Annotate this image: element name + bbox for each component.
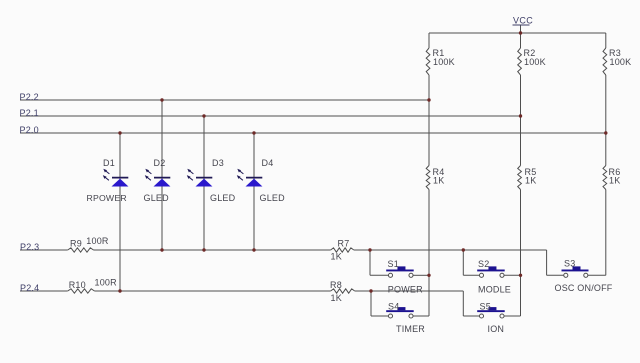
svg-text:P2.2: P2.2 (20, 92, 39, 102)
svg-text:1K: 1K (609, 175, 620, 185)
svg-text:P2.1: P2.1 (20, 108, 39, 118)
svg-text:1K: 1K (433, 175, 444, 185)
svg-text:100K: 100K (610, 57, 632, 67)
svg-text:S5: S5 (480, 301, 491, 311)
svg-text:MODLE: MODLE (478, 284, 511, 294)
svg-text:GLED: GLED (260, 193, 286, 203)
svg-text:POWER: POWER (388, 284, 423, 294)
svg-text:S2: S2 (478, 259, 489, 269)
svg-text:R7: R7 (338, 238, 350, 248)
svg-text:D2: D2 (154, 158, 166, 168)
svg-text:GLED: GLED (144, 193, 170, 203)
svg-text:S4: S4 (388, 301, 399, 311)
svg-text:100K: 100K (433, 57, 455, 67)
svg-text:R10: R10 (69, 280, 86, 290)
svg-text:100K: 100K (524, 57, 546, 67)
svg-text:100R: 100R (95, 278, 118, 288)
svg-text:S3: S3 (564, 258, 575, 268)
svg-text:D3: D3 (212, 158, 224, 168)
svg-text:R8: R8 (330, 280, 342, 290)
svg-text:S1: S1 (388, 259, 399, 269)
svg-text:1K: 1K (331, 293, 342, 303)
svg-text:1K: 1K (331, 252, 342, 262)
svg-text:R9: R9 (70, 238, 82, 248)
svg-text:RPOWER: RPOWER (87, 193, 127, 203)
svg-text:D1: D1 (103, 158, 115, 168)
svg-text:P2.4: P2.4 (20, 283, 39, 293)
svg-text:P2.3: P2.3 (20, 242, 39, 252)
svg-text:100R: 100R (86, 236, 109, 246)
svg-text:VCC: VCC (513, 16, 533, 26)
svg-text:OSC ON/OFF: OSC ON/OFF (555, 283, 613, 293)
svg-text:ION: ION (488, 324, 505, 334)
svg-text:TIMER: TIMER (396, 324, 425, 334)
svg-text:GLED: GLED (210, 193, 236, 203)
svg-text:D4: D4 (262, 158, 274, 168)
svg-text:1K: 1K (525, 175, 536, 185)
svg-text:P2.0: P2.0 (20, 125, 39, 135)
